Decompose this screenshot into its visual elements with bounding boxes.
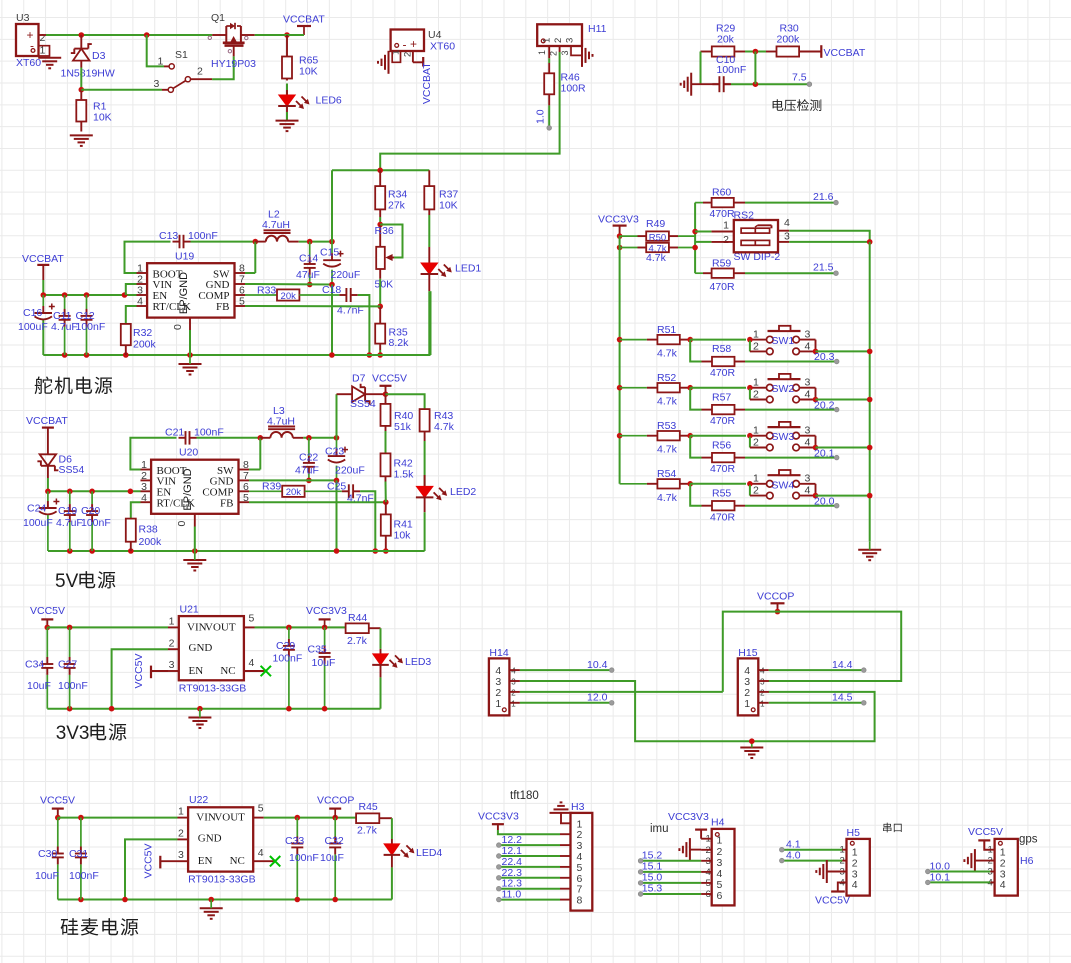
- resistor R38 200k: [126, 502, 162, 551]
- junction: [867, 239, 873, 245]
- capacitor C15 220uF: [320, 242, 360, 285]
- svg-text:470R: 470R: [710, 281, 736, 293]
- svg-text:R55: R55: [712, 487, 731, 499]
- wire: [548, 105, 550, 128]
- wire: [47, 478, 49, 491]
- svg-text:C25: C25: [327, 481, 346, 493]
- wire: [745, 272, 836, 274]
- label 3V3电源: [56, 723, 127, 744]
- junction: [122, 292, 128, 298]
- svg-text:100nF: 100nF: [194, 427, 224, 439]
- ground: [858, 541, 881, 560]
- svg-text:C16: C16: [23, 307, 42, 319]
- wire VCC3V3 riser: [619, 236, 621, 484]
- wire output riser: [331, 170, 333, 241]
- capacitor C18 4.7nF: [322, 284, 364, 317]
- potentiometer R36 50K: [375, 225, 403, 291]
- svg-text:U20: U20: [179, 447, 198, 459]
- junction: [334, 435, 340, 441]
- svg-text:GND: GND: [189, 642, 213, 654]
- junction: [747, 481, 753, 487]
- wire: [46, 34, 212, 36]
- resistor R41 10k: [381, 502, 413, 551]
- svg-text:4.7k: 4.7k: [657, 348, 678, 360]
- capacitor C25 4.7nF: [327, 481, 374, 505]
- svg-text:R44: R44: [348, 612, 367, 624]
- net label 20.1: [814, 447, 839, 460]
- wire RS2 pin1: [695, 231, 711, 233]
- connector H3: [560, 801, 592, 911]
- svg-text:LED6: LED6: [316, 95, 342, 107]
- wire: [690, 483, 746, 485]
- junction: [208, 897, 214, 903]
- wire: [42, 280, 44, 295]
- label 电压检测: [773, 99, 822, 111]
- power flag VCCOP: [757, 591, 794, 612]
- svg-text:VCC3V3: VCC3V3: [598, 214, 639, 226]
- junction: [867, 445, 873, 451]
- svg-text:100nF: 100nF: [717, 64, 747, 76]
- wire mic input rail: [58, 817, 178, 819]
- svg-text:NC: NC: [220, 665, 235, 677]
- junction: [79, 32, 85, 38]
- wire: [520, 669, 612, 671]
- capacitor C12 100nF: [76, 295, 106, 355]
- junction: [687, 337, 693, 343]
- svg-text:27k: 27k: [388, 200, 406, 212]
- dip switch RS2 SW DIP-2: [711, 210, 790, 264]
- resistor R33 20k (COMP): [245, 285, 339, 302]
- junction: [775, 609, 781, 615]
- junction: [122, 897, 128, 903]
- wire: [816, 399, 870, 401]
- svg-text:2: 2: [760, 688, 765, 697]
- svg-text:R56: R56: [712, 439, 731, 451]
- svg-text:C22: C22: [299, 452, 318, 464]
- resistor R60 470R: [695, 187, 745, 221]
- svg-text:4.7uF: 4.7uF: [51, 321, 78, 333]
- wire: [249, 469, 260, 471]
- wire: [816, 350, 870, 352]
- svg-text:470R: 470R: [710, 367, 736, 379]
- svg-text:7.5: 7.5: [792, 72, 807, 84]
- net label 22.4: [497, 856, 523, 869]
- svg-text:HY19P03: HY19P03: [211, 58, 256, 70]
- svg-text:100nF: 100nF: [69, 870, 99, 882]
- svg-text:2: 2: [40, 32, 46, 44]
- wire H14.3 gnd run: [520, 681, 875, 741]
- svg-text:20.3: 20.3: [814, 351, 835, 363]
- svg-text:3: 3: [178, 849, 184, 861]
- wire C15 down: [331, 285, 333, 356]
- svg-text:D7: D7: [352, 373, 366, 385]
- led LED6: [278, 90, 342, 112]
- svg-text:21.6: 21.6: [813, 191, 834, 203]
- junction: [144, 32, 150, 38]
- junction: [307, 282, 313, 288]
- wire top feed: [332, 169, 429, 171]
- wire BOOT loop: [130, 438, 176, 470]
- wire mic GND bus: [58, 899, 392, 901]
- power flag VCC5V: [815, 882, 850, 906]
- resistor R43 4.7k: [420, 409, 455, 441]
- wire: [499, 866, 560, 868]
- svg-text:10uF: 10uF: [27, 680, 51, 692]
- svg-text:R57: R57: [712, 391, 731, 403]
- junction: [867, 493, 873, 499]
- svg-text:100nF: 100nF: [289, 852, 319, 864]
- net label 4.1: [780, 839, 801, 853]
- svg-text:C23: C23: [325, 446, 344, 458]
- power flag VCC5V: [968, 826, 1003, 850]
- svg-text:3: 3: [805, 425, 811, 437]
- svg-text:3: 3: [784, 231, 790, 243]
- ground: [816, 860, 827, 883]
- wire: [391, 818, 393, 839]
- wire: [303, 437, 336, 439]
- led LED1: [421, 247, 482, 291]
- svg-text:VCCOP: VCCOP: [317, 795, 354, 807]
- junction: [747, 337, 753, 343]
- net label 14.5: [832, 692, 866, 706]
- wire: [358, 295, 370, 355]
- svg-text:1: 1: [753, 425, 759, 437]
- svg-text:U19: U19: [175, 251, 194, 263]
- junction: [334, 478, 340, 484]
- label 串口: [883, 823, 902, 833]
- junction: [692, 229, 698, 235]
- junction: [617, 337, 623, 343]
- svg-text:1: 1: [723, 220, 729, 232]
- ground: [276, 121, 299, 132]
- svg-text:C29: C29: [276, 640, 295, 652]
- wire S1 pin3: [81, 89, 162, 91]
- net label 10.1: [926, 872, 951, 885]
- junction: [617, 245, 623, 251]
- svg-text:C30: C30: [38, 848, 57, 860]
- wire: [385, 482, 387, 503]
- svg-text:100nF: 100nF: [76, 321, 106, 333]
- wire 3V3 GND bus: [47, 708, 380, 710]
- capacitor C11 4.7uF: [51, 295, 78, 355]
- svg-text:VCCBAT: VCCBAT: [283, 14, 325, 26]
- resistor R45 2.7k: [356, 801, 392, 837]
- svg-text:1: 1: [537, 50, 547, 55]
- svg-text:1: 1: [744, 698, 750, 710]
- svg-text:C14: C14: [299, 253, 318, 265]
- svg-text:EN: EN: [198, 855, 213, 867]
- svg-text:4.7uH: 4.7uH: [262, 219, 290, 231]
- wire mid riser: [694, 203, 696, 274]
- led LED4: [384, 839, 443, 867]
- svg-text:4.7k: 4.7k: [657, 492, 678, 504]
- net label 12.2: [497, 834, 523, 847]
- svg-text:U21: U21: [180, 604, 199, 616]
- net label 15.0: [638, 871, 662, 885]
- junction: [692, 245, 698, 251]
- svg-text:FB: FB: [220, 498, 233, 510]
- wire: [428, 291, 430, 355]
- diode D6 SS54: [37, 433, 84, 478]
- junction: [286, 706, 292, 712]
- wire: [731, 83, 809, 85]
- svg-text:4.0: 4.0: [786, 850, 801, 862]
- svg-text:2: 2: [511, 688, 516, 697]
- capacitor C29 100nF: [273, 627, 303, 708]
- svg-text:3V3: 3V3: [56, 723, 90, 744]
- junction: [286, 625, 292, 631]
- IC U21 RT9013-33GB: [168, 604, 264, 695]
- junction: [84, 292, 90, 298]
- resistor R34 27k: [375, 170, 407, 217]
- svg-text:20.2: 20.2: [814, 399, 835, 411]
- svg-text:1.5k: 1.5k: [394, 469, 415, 481]
- wire RS2 pin3: [789, 241, 870, 243]
- svg-text:10K: 10K: [439, 200, 458, 212]
- wire: [745, 457, 837, 459]
- wire VCCOP run: [723, 612, 901, 692]
- resistor R44 2.7k: [346, 612, 381, 647]
- svg-text:10uF: 10uF: [320, 852, 344, 864]
- svg-text:4: 4: [511, 667, 516, 676]
- wire S1 pin1: [147, 35, 164, 66]
- junction: [334, 548, 340, 554]
- wire: [197, 437, 261, 439]
- svg-text:+: +: [410, 37, 417, 51]
- inductor L3 4.7uH: [260, 405, 303, 438]
- wire: [245, 272, 255, 274]
- ground: [740, 741, 763, 758]
- wire D7 riser: [336, 394, 338, 438]
- junction: [62, 292, 68, 298]
- connector H14: [489, 647, 520, 715]
- net label 12.1: [497, 845, 523, 858]
- svg-text:R59: R59: [712, 258, 731, 270]
- svg-text:2: 2: [753, 340, 759, 352]
- wire: [42, 320, 44, 355]
- svg-text:SS54: SS54: [350, 398, 376, 410]
- svg-text:100nF: 100nF: [81, 517, 111, 529]
- junction: [687, 385, 693, 391]
- svg-text:H4: H4: [711, 817, 725, 829]
- capacitor C20 100nF: [81, 491, 111, 551]
- wire: [641, 860, 702, 862]
- svg-text:20k: 20k: [717, 34, 735, 46]
- svg-text:5: 5: [249, 613, 255, 625]
- junction: [123, 352, 129, 358]
- svg-text:3: 3: [511, 678, 516, 687]
- svg-text:R38: R38: [139, 524, 158, 536]
- label imu: [650, 823, 669, 835]
- wire: [548, 58, 550, 63]
- power flag VCC3V3: [668, 811, 709, 839]
- capacitor C27 100nF: [58, 627, 88, 708]
- wire: [928, 871, 990, 873]
- svg-text:20k: 20k: [286, 487, 302, 498]
- capacitor C24 100uF: [23, 491, 59, 551]
- junction: [67, 706, 73, 712]
- svg-text:1: 1: [169, 616, 175, 628]
- capacitor C34 10uF: [25, 627, 53, 708]
- svg-text:GND: GND: [198, 832, 222, 844]
- wire: [286, 84, 288, 96]
- wire: [690, 435, 746, 437]
- led LED3: [372, 649, 431, 678]
- svg-text:LED2: LED2: [450, 486, 476, 498]
- net label 21.6: [813, 191, 838, 205]
- svg-text:10K: 10K: [93, 112, 112, 124]
- ground: [70, 135, 93, 146]
- wire S1 pin2 to Q1 gate: [212, 56, 234, 79]
- ground: [200, 900, 223, 919]
- svg-text:S1: S1: [175, 49, 188, 61]
- svg-text:RT9013-33GB: RT9013-33GB: [188, 874, 256, 886]
- net label 15.3: [638, 883, 662, 897]
- wire gnd stub: [975, 860, 995, 862]
- net label 15.1: [638, 860, 662, 874]
- IC U20 TPS54331: [141, 447, 250, 527]
- net label 20.3: [814, 351, 839, 364]
- wire: [424, 512, 426, 551]
- junction: [45, 489, 51, 495]
- svg-text:3: 3: [560, 50, 570, 55]
- svg-text:LED3: LED3: [405, 656, 431, 668]
- junction: [749, 738, 755, 744]
- wire GND pin2: [112, 649, 168, 709]
- svg-text:11.0: 11.0: [502, 889, 522, 901]
- junction: [55, 815, 61, 821]
- svg-text:200k: 200k: [139, 536, 163, 548]
- svg-text:50K: 50K: [375, 279, 394, 291]
- diode D3 1N5819HW: [61, 35, 115, 80]
- junction: [67, 548, 73, 554]
- svg-text:R51: R51: [657, 324, 676, 336]
- resistor R55 470R: [690, 484, 745, 524]
- net label 10.4: [587, 659, 614, 672]
- net label 1.0: [535, 109, 552, 130]
- wire: [286, 112, 288, 121]
- svg-text:2: 2: [403, 52, 414, 57]
- wire: [928, 881, 990, 883]
- svg-text:5: 5: [258, 803, 264, 815]
- svg-text:3: 3: [169, 659, 175, 671]
- svg-text:VCCOP: VCCOP: [757, 591, 794, 603]
- svg-text:R32: R32: [133, 327, 152, 339]
- wire: [424, 441, 426, 486]
- wire: [80, 68, 82, 90]
- svg-text:14.4: 14.4: [832, 659, 853, 671]
- resistor R30 200k: [766, 23, 821, 57]
- wire GND pin7: [245, 283, 332, 286]
- resistor R51 4.7k: [620, 324, 691, 360]
- wire: [499, 855, 560, 857]
- svg-text:R36: R36: [375, 225, 394, 237]
- svg-text:VIN: VIN: [196, 812, 216, 824]
- resistor R29 20k: [701, 23, 746, 57]
- svg-text:gps: gps: [1019, 834, 1038, 846]
- junction: [747, 433, 753, 439]
- push switch SW2: [750, 374, 816, 403]
- svg-text:470R: 470R: [710, 511, 736, 523]
- svg-text:20k: 20k: [281, 291, 297, 302]
- svg-text:1N5819HW: 1N5819HW: [61, 68, 115, 80]
- svg-text:C35: C35: [308, 644, 327, 656]
- wire: [816, 495, 870, 497]
- svg-text:4.7uF: 4.7uF: [56, 517, 83, 529]
- capacitor C21 100nF: [165, 427, 224, 445]
- led LED2: [416, 475, 477, 512]
- resistor R49 4.7k: [620, 218, 696, 243]
- svg-text:VCCBAT: VCCBAT: [26, 415, 68, 427]
- junction: [377, 304, 383, 310]
- junction: [128, 489, 134, 495]
- svg-text:R60: R60: [712, 187, 731, 199]
- wire: [782, 860, 842, 862]
- svg-text:3: 3: [805, 377, 811, 389]
- svg-text:1: 1: [511, 699, 516, 708]
- ground: [681, 73, 692, 96]
- svg-text:R50: R50: [649, 232, 666, 243]
- capacitor C14 47uF: [296, 242, 320, 285]
- power flag VCC5V (EN): [143, 843, 178, 878]
- svg-text:8: 8: [577, 895, 583, 907]
- no-connect X: [270, 856, 280, 866]
- wire VIN tie: [126, 284, 137, 295]
- junction: [373, 548, 379, 554]
- junction: [867, 349, 873, 355]
- power flag VCC3V3: [306, 605, 347, 627]
- svg-text:20.0: 20.0: [814, 495, 835, 507]
- svg-text:100uF: 100uF: [23, 517, 53, 529]
- junction: [41, 292, 47, 298]
- junction: [284, 32, 290, 38]
- ground: [550, 802, 573, 813]
- resistor R56 470R: [690, 436, 745, 476]
- svg-text:12.0: 12.0: [587, 692, 608, 704]
- junction: [128, 548, 134, 554]
- ground: [378, 51, 389, 74]
- svg-text:SS54: SS54: [59, 464, 85, 476]
- wire: [641, 893, 702, 895]
- wire: [641, 882, 702, 884]
- diode D7 SS54: [337, 373, 386, 411]
- ground: [582, 44, 593, 67]
- junction: [617, 385, 623, 391]
- svg-text:VCC5V: VCC5V: [143, 843, 155, 878]
- svg-text:2: 2: [753, 389, 759, 401]
- wire: [379, 350, 381, 355]
- wire BOOT loop: [125, 242, 171, 273]
- svg-text:51k: 51k: [394, 421, 412, 433]
- junction: [295, 815, 301, 821]
- svg-text:2: 2: [197, 66, 203, 78]
- svg-text:C20: C20: [81, 505, 100, 517]
- capacitor C32 10uF: [320, 818, 344, 900]
- junction: [383, 548, 389, 554]
- svg-text:15.3: 15.3: [642, 883, 663, 895]
- wire SW riser: [259, 438, 261, 470]
- power flag VCCOP: [317, 795, 354, 818]
- junction: [747, 385, 753, 391]
- power flag VCC5V: [372, 373, 407, 395]
- net label 12.0: [587, 692, 614, 706]
- svg-text:SW2: SW2: [772, 383, 795, 395]
- power flag VCCBAT: [420, 57, 434, 104]
- wire servo GND bus: [43, 354, 430, 356]
- wire SW riser: [254, 242, 256, 273]
- ground: [183, 551, 206, 571]
- junction: [377, 168, 383, 174]
